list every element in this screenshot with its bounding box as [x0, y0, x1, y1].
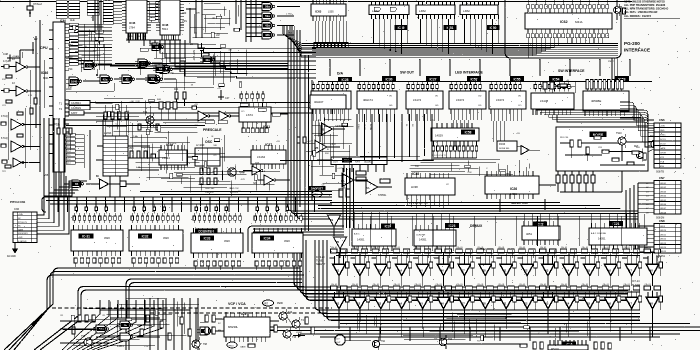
svg-text:L3: L3 [646, 191, 649, 193]
svg-text:CK: CK [262, 111, 266, 113]
gate IC64b [135, 59, 162, 68]
svg-text:LED INTERFACE: LED INTERFACE [455, 71, 483, 75]
wire bass bus group B [126, 279, 302, 350]
IC53 block 4051BE [583, 91, 629, 116]
wire bottom-left verticals [150, 298, 198, 350]
svg-text:+5V: +5V [217, 88, 221, 90]
wire demux feed bundle [343, 168, 354, 228]
svg-text:8 TAQ: 8 TAQ [1, 137, 8, 140]
wire demux top feeds [354, 212, 644, 225]
svg-text:+4.7V: +4.7V [307, 141, 313, 143]
CPU IC46 block [40, 22, 65, 172]
svg-text:VR10: VR10 [228, 346, 234, 348]
wire mid bus 226 [248, 226, 344, 252]
gate IC5b [117, 321, 133, 329]
svg-text:+5V: +5V [516, 133, 520, 135]
PG-200 section border [505, 0, 621, 58]
svg-text:IK: IK [76, 309, 79, 311]
diode D30 [293, 332, 305, 338]
svg-text:33K: 33K [506, 174, 510, 176]
connector CN1 PITCH [10, 200, 37, 242]
svg-text:LED15: LED15 [660, 251, 667, 253]
wire bass elbow to right [294, 240, 628, 300]
svg-text:IC55: IC55 [514, 77, 521, 81]
resistor array RA2 [358, 82, 394, 92]
IC62 block [525, 9, 612, 33]
wire osc region mesh [130, 121, 225, 180]
svg-text:+5VD: +5VD [660, 126, 666, 128]
gate IC5d [117, 333, 133, 348]
svg-text:4520: 4520 [104, 236, 110, 240]
svg-text:LED04: LED04 [660, 196, 667, 198]
svg-text:P10: P10 [68, 56, 73, 59]
IC53 tag [615, 76, 629, 81]
op-amp IC25a [315, 120, 345, 135]
svg-text:P90/7: P90/7 [608, 61, 615, 63]
svg-text:R40: R40 [157, 99, 162, 101]
svg-text:0.1: 0.1 [194, 32, 198, 34]
svg-text:VCA: VCA [660, 161, 665, 164]
IC58 pin resistor boxes [432, 146, 478, 158]
wire data bus left fan [283, 26, 302, 58]
wire led drops [453, 120, 504, 150]
IC23 tag [445, 223, 459, 228]
IC41 block LS74 [239, 102, 271, 122]
wire T-row label boxes [54, 101, 90, 127]
svg-text:SELECTOR: SELECTOR [511, 201, 529, 205]
svg-text:43a: 43a [265, 24, 270, 28]
svg-text:SYNC: SYNC [660, 135, 666, 137]
transistor T98 [192, 337, 208, 350]
gate IC58a [259, 3, 300, 11]
IC34 block [252, 228, 303, 258]
svg-text:LED03: LED03 [660, 191, 667, 193]
IC62 bottom pin boxes [527, 34, 609, 38]
svg-text:FW43: FW43 [499, 144, 506, 146]
resistor array below IC34 [255, 261, 302, 266]
wire gate drops to bus [373, 19, 498, 55]
label LED INTERFACE [455, 71, 483, 75]
IC26 block [485, 171, 539, 199]
svg-text:IC54: IC54 [553, 77, 560, 81]
FW43 noise sel box [497, 133, 540, 155]
svg-text:KATP: KATP [71, 112, 78, 115]
gate IC49 inner gates [374, 7, 396, 11]
IC29 block 40H367 [310, 95, 346, 114]
svg-text:IC37: IC37 [265, 143, 272, 147]
IC27 tag [426, 76, 440, 81]
label D/A [337, 72, 344, 76]
inverter IC42c [2, 158, 40, 167]
svg-text:VR7: VR7 [263, 302, 269, 306]
IC57 block LS374 [449, 91, 486, 114]
svg-text:C8+ 01: C8+ 01 [331, 247, 337, 249]
svg-text:SW OUT: SW OUT [400, 71, 415, 75]
svg-text:PITCH CV: PITCH CV [18, 222, 28, 224]
svg-text:LS301: LS301 [296, 332, 303, 334]
svg-text:66: 66 [96, 175, 99, 178]
svg-text:33K: 33K [129, 102, 133, 104]
svg-text:A B C: A B C [354, 233, 360, 236]
svg-text:C8+ 01: C8+ 01 [624, 247, 630, 249]
svg-text:+5V: +5V [56, 125, 60, 127]
svg-text:+5VA: +5VA [18, 213, 23, 216]
wire RAM right rails [186, 0, 202, 43]
svg-text:4051: 4051 [526, 232, 532, 236]
wire main vertical bus [288, 30, 300, 207]
svg-text:V05: V05 [44, 174, 49, 177]
svg-text:ST950L: ST950L [378, 194, 387, 197]
resistor array above IC34 [254, 204, 302, 223]
svg-text:LED05: LED05 [660, 200, 667, 202]
COUNTER tag [195, 229, 217, 234]
svg-text:14051: 14051 [598, 237, 606, 241]
svg-text:R1: R1 [61, 315, 65, 317]
wire IC58 collect [280, 120, 477, 161]
svg-text:LED01: LED01 [660, 183, 667, 185]
IC39 block [159, 145, 187, 170]
svg-text:4051BE: 4051BE [591, 99, 601, 103]
svg-text:A B C COM INH: A B C COM INH [591, 232, 606, 235]
svg-text:IC-31: IC-31 [82, 234, 90, 238]
op-amp row1 IC7-IC14 buffers [330, 253, 663, 286]
IC30 block 40H174 [357, 91, 397, 114]
CPU pin label boxes A8-A15 [69, 19, 78, 65]
wire EPROM bottom fan [126, 33, 181, 40]
op-amp IC66 [96, 175, 140, 189]
IC38 pin numbers [409, 203, 428, 205]
svg-text:LS374: LS374 [496, 98, 505, 102]
svg-text:42a: 42a [103, 77, 108, 81]
svg-text:14051: 14051 [510, 193, 518, 196]
svg-text:DEMUX: DEMUX [470, 224, 483, 228]
wire IC38 bottom fan [407, 200, 448, 209]
oscillator trimmer boxes [129, 148, 156, 158]
svg-text:LED14: LED14 [660, 247, 667, 249]
svg-text:C8+ 01: C8+ 01 [540, 247, 546, 249]
svg-text:4.7K: 4.7K [97, 345, 102, 347]
svg-text:5514: 5514 [162, 27, 168, 31]
svg-text:T15: T15 [292, 336, 297, 339]
svg-text:43: 43 [12, 58, 15, 61]
svg-text:4.7K: 4.7K [28, 95, 33, 97]
IC21 pin numbers [591, 253, 608, 255]
svg-text:4520: 4520 [284, 239, 290, 243]
svg-text:CN8: CN8 [659, 219, 665, 223]
svg-text:IC30: IC30 [386, 77, 393, 81]
svg-text:PE80: PE80 [277, 302, 284, 305]
svg-text:VD: VD [518, 96, 521, 98]
svg-text:C8+ 01: C8+ 01 [603, 284, 609, 286]
svg-text:LED10: LED10 [660, 230, 667, 232]
connector CN6 labels [660, 126, 666, 169]
wire bass bus group A [4, 268, 304, 350]
IC55 tag [510, 76, 524, 81]
battery BT1 [190, 43, 205, 61]
svg-text:40H174: 40H174 [363, 98, 373, 102]
svg-text:59a: 59a [265, 14, 270, 18]
S/H label [480, 248, 486, 252]
gate IC43c [259, 22, 294, 30]
svg-text:LS374: LS374 [456, 98, 465, 102]
IC24 tag [381, 224, 395, 229]
wire CN1 staircase [37, 181, 87, 234]
ram right mesh [190, 4, 240, 38]
svg-text:ALL FETs : 2SK30A/YM-GR: ALL FETs : 2SK30A/YM-GR [624, 10, 657, 14]
svg-text:+5V: +5V [276, 141, 280, 143]
IC1 block [218, 312, 270, 342]
wire selector nets [500, 167, 622, 212]
inverter IC42b [1, 134, 40, 152]
svg-text:NOISE SEL: NOISE SEL [499, 148, 510, 150]
svg-text:FROM KEY: FROM KEY [18, 233, 29, 235]
wire bus branch drops [329, 59, 631, 76]
selector mesh [410, 160, 530, 176]
wire bass bus group C [34, 287, 304, 350]
svg-text:GAIN: GAIN [240, 346, 246, 349]
RM1 resistor module [331, 157, 387, 172]
trimmer VR10 [227, 342, 246, 349]
IC54 tag [549, 76, 563, 81]
svg-text:C8+ 01: C8+ 01 [456, 247, 462, 249]
resistor array below IC33 [194, 261, 241, 266]
IC28 tag [338, 77, 352, 82]
svg-text:C8+ 01: C8+ 01 [498, 284, 504, 286]
svg-text:IK: IK [327, 149, 330, 151]
trimmer VR5 [292, 240, 302, 246]
gate IC51 block [416, 1, 457, 30]
svg-text:CAXB04: CAXB04 [71, 102, 81, 105]
svg-text:C8+ 01: C8+ 01 [352, 247, 358, 249]
svg-text:LED12: LED12 [660, 239, 667, 241]
wire bus curve CN6 [620, 102, 654, 147]
svg-text:47K: 47K [434, 338, 438, 340]
connector CN6 [654, 118, 681, 174]
svg-text:PITCH CN1: PITCH CN1 [10, 200, 26, 204]
svg-text:RXN: RXN [355, 162, 360, 164]
wire bus elbow mid [288, 203, 638, 219]
label OSC small [104, 139, 111, 143]
svg-text:IC49: IC49 [398, 26, 405, 30]
inverter IC43a [1, 58, 40, 72]
inverter IC47b [219, 111, 239, 121]
wire bus horizontal 205 [318, 203, 620, 209]
inverter IC42a [1, 112, 40, 130]
svg-text:IC33: IC33 [204, 236, 211, 240]
svg-text:C8+ 01: C8+ 01 [415, 247, 421, 249]
wire address bus staircase [150, 40, 316, 78]
wire counter top bus [42, 192, 332, 213]
svg-text:C: C [333, 120, 335, 122]
svg-text:P14: P14 [68, 68, 73, 71]
POLY OUT jack [334, 335, 345, 345]
node PB0 labels [68, 44, 73, 89]
svg-text:4520: 4520 [163, 236, 169, 240]
label IC7-14 [632, 280, 641, 287]
gate IC59a [259, 12, 294, 20]
gate IC51d [145, 75, 160, 83]
svg-text:C8+ 01: C8+ 01 [436, 247, 442, 249]
svg-text:GD: GD [389, 105, 393, 107]
svg-text:51a: 51a [99, 327, 104, 331]
svg-text:IK: IK [211, 136, 214, 138]
wire NAND input rails [236, 0, 262, 42]
svg-text:OD: OD [478, 105, 482, 107]
svg-text:4.7K: 4.7K [240, 172, 245, 174]
resistor array above IC32 [131, 204, 179, 223]
resistor array above IC33 [193, 204, 241, 223]
svg-text:D/A: D/A [337, 72, 344, 76]
svg-text:+5VAM: +5VAM [12, 55, 19, 58]
svg-text:L5: L5 [646, 200, 649, 202]
svg-text:ALL PNP TRANSISTORS: 2SA933: ALL PNP TRANSISTORS: 2SA933 [624, 3, 666, 7]
label SW OUT [400, 71, 415, 75]
IC54 aux parts [540, 80, 575, 93]
svg-text:9 TAQ: 9 TAQ [1, 115, 8, 118]
svg-text:L2 4069: L2 4069 [196, 145, 205, 147]
svg-text:ALL DIODES : 1S2473: ALL DIODES : 1S2473 [624, 14, 651, 18]
svg-text:S1: S1 [405, 124, 407, 127]
svg-text:R12: R12 [2, 79, 7, 81]
svg-text:2.2K: 2.2K [144, 346, 149, 348]
resistor boxes bottom-left [72, 315, 191, 340]
svg-text:VCF / VCA: VCF / VCA [228, 302, 246, 306]
svg-text:42e: 42e [205, 58, 210, 62]
svg-text:LD38: LD38 [411, 185, 418, 189]
inverter IC40a [243, 162, 263, 175]
svg-text:GND SEL: GND SEL [205, 188, 215, 190]
IC45 pin table [87, 1, 99, 22]
resistor array RA7 tall [586, 80, 623, 92]
svg-text:C8+ 01: C8+ 01 [624, 284, 630, 286]
wire vcf nets [196, 308, 311, 344]
svg-text:C8+ 01: C8+ 01 [519, 247, 525, 249]
wire osc nets [90, 120, 251, 197]
wire addr vertical weave [84, 24, 104, 70]
svg-text:VR6: VR6 [313, 194, 318, 197]
connector CN1 labels [18, 213, 29, 243]
gate IC42g [97, 75, 122, 84]
gate IC43d [259, 31, 294, 39]
wire sh rails [336, 253, 655, 293]
VCF/VCA label [228, 302, 246, 306]
svg-text:C3: C3 [78, 61, 82, 63]
svg-text:C8+ 01: C8+ 01 [477, 284, 483, 286]
svg-text:4.7K: 4.7K [241, 179, 246, 181]
IC33 block [191, 228, 243, 258]
svg-text:33K: 33K [106, 117, 110, 119]
svg-text:T1A: T1A [143, 111, 148, 114]
IC45 block [103, 132, 128, 176]
gate IC63a [147, 73, 176, 84]
wire counter bottom stubs [76, 263, 294, 270]
svg-text:IC48: IC48 [162, 23, 169, 27]
node P90/7 [608, 61, 615, 63]
op-amp BA662B [339, 179, 392, 197]
svg-text:DCO1: DCO1 [660, 139, 666, 141]
svg-text:BATTERY: BATTERY [192, 50, 195, 61]
svg-text:C8+ 01: C8+ 01 [645, 247, 651, 249]
wire address lines to ROM [78, 24, 112, 64]
svg-text:LS74: LS74 [246, 113, 253, 117]
op-amp tune B [334, 237, 347, 258]
svg-text:GATE: GATE [660, 147, 666, 150]
IC23 block [414, 225, 456, 251]
svg-text:IC63: IC63 [315, 10, 322, 14]
IC21 tag [609, 221, 623, 226]
transistor T910 [616, 132, 626, 148]
IC37 pin numbers [253, 171, 266, 173]
wire section rule [318, 81, 652, 83]
svg-text:VSS: VSS [182, 20, 187, 23]
resistor array below IC31 [74, 258, 121, 263]
svg-text:VD: VD [435, 96, 438, 98]
svg-text:2.2K: 2.2K [467, 172, 472, 174]
svg-text:14069: 14069 [335, 126, 342, 128]
trimmer VR7 [263, 300, 284, 306]
svg-text:C8+ 01: C8+ 01 [456, 284, 462, 286]
svg-text:M5230L: M5230L [228, 325, 239, 329]
svg-text:CHOR: CHOR [660, 153, 666, 155]
cpu area mesh [69, 24, 112, 65]
svg-text:RD: RD [143, 36, 147, 38]
EPROM left pin boxes [103, 1, 122, 25]
svg-text:4.7K: 4.7K [136, 167, 141, 169]
resistor boxes selector [556, 168, 595, 192]
svg-text:C8+ 01: C8+ 01 [561, 247, 567, 249]
svg-text:GND: GND [660, 130, 665, 132]
svg-text:IC34: IC34 [264, 236, 271, 240]
svg-text:C: C [104, 61, 106, 63]
IC37 block LS164 [251, 145, 286, 169]
svg-text:POLY: POLY [334, 339, 340, 341]
svg-text:VC: VC [446, 184, 449, 186]
svg-text:2 1 4 3 6 5 8 7 9: 2 1 4 3 6 5 8 7 9 [432, 155, 447, 157]
wire sw bus to CN6 [536, 110, 654, 146]
svg-text:INTERFACE: INTERFACE [624, 48, 650, 53]
resistor array RA5 [490, 82, 521, 92]
inverter IC40b [258, 175, 290, 185]
svg-text:C8+ 01: C8+ 01 [373, 284, 379, 286]
transistor T16 [279, 309, 293, 323]
svg-text:47K: 47K [196, 12, 200, 14]
transistor T17 [292, 317, 304, 331]
svg-text:CO: CO [518, 105, 522, 107]
svg-text:14051: 14051 [357, 238, 365, 242]
label PRESCALE [203, 128, 222, 132]
svg-text:C8+ 01: C8+ 01 [394, 247, 400, 249]
svg-text:IC51: IC51 [447, 26, 454, 30]
svg-text:19: 19 [330, 218, 334, 222]
svg-text:IC27: IC27 [430, 77, 437, 81]
node pullup resistors [56, 125, 72, 150]
IC62 top pin boxes [527, 0, 609, 8]
svg-text:OSC: OSC [205, 140, 213, 144]
svg-text:XTAL2: XTAL2 [33, 2, 42, 6]
label OSC [205, 140, 213, 144]
wire gate output band [110, 63, 288, 69]
gate IC1640 [66, 77, 100, 91]
node VDD CE RD [128, 33, 147, 46]
capacitor row above row1 [331, 247, 661, 253]
wire vertical drops under IC row [357, 114, 432, 164]
IC55 block LS374 [489, 91, 526, 114]
node +5VAM arrow [12, 52, 22, 58]
connector CN8 [644, 219, 681, 258]
transistor T1A [138, 111, 159, 132]
ground GND arrow [7, 243, 18, 259]
trimmer VR6 [309, 186, 326, 197]
